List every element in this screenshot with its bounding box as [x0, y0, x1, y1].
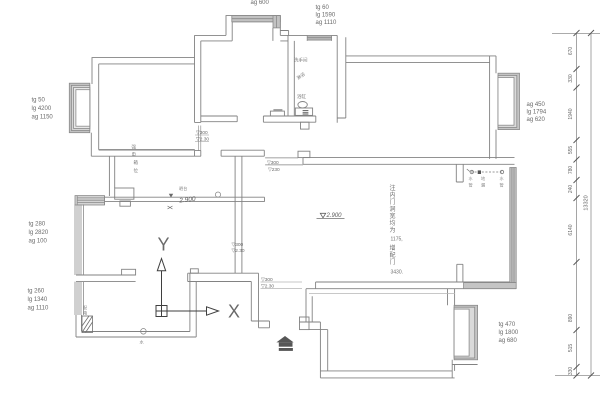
svg-text:lg 1800: lg 1800 [499, 330, 519, 336]
wall bay left [226, 16, 280, 36]
svg-text:890: 890 [568, 314, 574, 323]
level mark 2.900 center [317, 213, 345, 219]
level mark cluster left hall [168, 185, 197, 209]
wall living top [346, 56, 496, 63]
window bottom-left glazing upper [75, 204, 84, 275]
jamb box bottom-right room [300, 317, 310, 330]
small circle mark near mid wall [215, 192, 220, 197]
svg-text:1175,: 1175, [391, 237, 403, 243]
svg-text:3430.: 3430. [391, 270, 404, 276]
window bottom-right room [454, 305, 478, 360]
axis X line [167, 310, 207, 312]
bump on stub wall [122, 269, 136, 275]
wall central vertical pair x194.5-200.8 [195, 35, 201, 122]
extension line bottom [555, 375, 600, 377]
tiny text pipes [469, 175, 505, 189]
north arrow [276, 336, 293, 351]
svg-text:ag 100: ag 100 [29, 239, 48, 245]
wall step to bottom-right room [306, 289, 316, 322]
svg-text:ag 1150: ag 1150 [32, 115, 54, 121]
svg-text:漏: 漏 [481, 182, 485, 189]
pipes filled square [478, 170, 481, 174]
wall bath left pair [288, 35, 294, 116]
svg-text:Y: Y [157, 235, 169, 255]
svg-text:管: 管 [469, 182, 473, 189]
svg-text:▽230: ▽230 [268, 167, 280, 173]
wall corridor pair [109, 156, 114, 196]
svg-text:管: 管 [500, 182, 504, 189]
wall central room bottom [201, 116, 237, 122]
wall C-room top [188, 273, 259, 281]
svg-text:浴缸: 浴缸 [297, 93, 306, 100]
wall top outer left of bay [195, 35, 233, 41]
wall bath bottom [263, 116, 315, 122]
wall bottom-left room bottom [76, 332, 196, 338]
axis Y line [161, 271, 163, 306]
electric panel bottom-left [82, 316, 93, 333]
level notes [196, 130, 280, 290]
basin pedestal [270, 111, 284, 116]
wall below TL window [90, 133, 92, 157]
wall bay inner verticals [232, 22, 273, 41]
wall central vertical lower jamb [195, 151, 201, 157]
svg-text:lg 1340: lg 1340 [28, 297, 48, 303]
svg-text:▽300: ▽300 [232, 242, 244, 248]
svg-text:配: 配 [390, 252, 396, 259]
wall bottom-right room top [300, 322, 328, 330]
wall bottom-left outer left lower [76, 315, 82, 337]
wall bath right pair [337, 35, 346, 122]
door jamb thin lines central wall [199, 126, 201, 151]
svg-text:门: 门 [390, 258, 396, 266]
door threshold lines mid opening [265, 158, 303, 165]
axis Y arrowhead [157, 259, 165, 271]
svg-text:均: 均 [390, 219, 396, 227]
washer box [295, 108, 312, 115]
svg-text:lg 1590: lg 1590 [316, 13, 336, 19]
pier closet box [115, 188, 134, 199]
svg-text:lg 1794: lg 1794 [527, 110, 547, 116]
svg-text:▽300: ▽300 [267, 160, 279, 166]
text blocks [28, 0, 547, 344]
svg-text:X: X [228, 302, 240, 322]
dim line outer [590, 33, 592, 376]
dimension lines right [552, 33, 600, 376]
jamb bump C-room top left [190, 269, 198, 273]
wall big room bottom [316, 282, 517, 289]
svg-text:ag 450: ag 450 [527, 102, 546, 108]
wall top-left room inner [99, 64, 195, 150]
dim ticks outer [588, 30, 594, 36]
wall below BR window [452, 360, 477, 378]
extension line top [552, 33, 600, 35]
wall top-left room outer [92, 58, 195, 84]
svg-text:位: 位 [134, 167, 139, 173]
wall C-room left pair [190, 273, 196, 331]
basin hatch [273, 109, 282, 111]
window bedroom right bay [498, 73, 520, 129]
svg-text:电: 电 [132, 151, 137, 157]
axis X arrowhead [207, 307, 219, 315]
wall TL room bottom outer [91, 150, 201, 156]
windows group [69, 16, 519, 360]
jamb notch above long wall [298, 151, 310, 157]
svg-text:240: 240 [568, 185, 574, 194]
svg-text:ag 1110: ag 1110 [316, 20, 337, 26]
svg-text:箱: 箱 [134, 159, 139, 166]
wall long mid-right [303, 158, 515, 165]
svg-text:晒台: 晒台 [179, 185, 187, 192]
wall C-room right jog [251, 321, 269, 328]
wall bottom-right room right pair [448, 289, 455, 306]
dim line inner [576, 33, 578, 376]
toilet oval [298, 102, 307, 108]
svg-text:330: 330 [568, 367, 574, 376]
faint terrace line [309, 292, 455, 294]
axis UCS icon [156, 259, 219, 317]
svg-text:ag 1110: ag 1110 [28, 306, 49, 312]
svg-text:洗手间: 洗手间 [294, 57, 308, 64]
svg-text:内: 内 [390, 191, 396, 199]
wall mid left segment [221, 150, 264, 156]
svg-text:ag 620: ag 620 [527, 117, 546, 123]
dim ticks inner [574, 30, 595, 379]
washer hatch marks [303, 111, 309, 114]
underlines level notes [195, 135, 209, 142]
svg-text:ag 600: ag 600 [251, 0, 270, 6]
window bottom-left top frame corner [75, 196, 105, 205]
pipes dashed line [467, 169, 504, 174]
svg-text:lg 2820: lg 2820 [29, 230, 49, 236]
vertical note [390, 184, 404, 276]
tiny text panel [83, 305, 145, 345]
tiny text column near door TL [132, 145, 139, 174]
wall stub below long wall [456, 164, 463, 182]
svg-text:洞: 洞 [390, 205, 396, 213]
wall C-room right pair [251, 273, 258, 328]
wall jamb right lower [457, 264, 463, 282]
window long right side [464, 168, 517, 289]
svg-text:tg 50: tg 50 [32, 98, 46, 104]
window TL left: nested frame [69, 83, 90, 133]
svg-text:ag 680: ag 680 [499, 338, 518, 344]
window bottom-left glazing lower [75, 282, 84, 315]
svg-text:515: 515 [568, 344, 574, 353]
small circle mark on bottom wall [141, 329, 147, 335]
wall bottom-left room top / hall line [105, 197, 265, 201]
wall bottom-right room left [320, 322, 327, 378]
svg-text:▽2.30: ▽2.30 [232, 248, 245, 254]
svg-text:增: 增 [390, 244, 396, 252]
svg-text:门: 门 [390, 198, 396, 206]
svg-text:555: 555 [568, 146, 574, 155]
svg-text:lg 4200: lg 4200 [32, 106, 52, 112]
svg-text:tg 470: tg 470 [499, 322, 516, 328]
svg-text:tg 60: tg 60 [316, 5, 330, 11]
svg-text:1940: 1940 [568, 108, 574, 119]
door notch below wall [120, 201, 130, 206]
window band top of bath [307, 35, 331, 41]
window bay top band [232, 16, 280, 28]
svg-text:宽: 宽 [390, 212, 396, 220]
svg-text:tg 280: tg 280 [29, 222, 46, 228]
svg-text:6140: 6140 [568, 224, 574, 235]
svg-text:为: 为 [390, 226, 396, 234]
door jamb below bath [301, 122, 310, 129]
dim numbers inner [568, 47, 574, 376]
svg-text:780: 780 [568, 166, 574, 175]
wall stub bottom-left [76, 275, 136, 282]
svg-text:tg 260: tg 260 [28, 289, 45, 295]
wall bottom-right room bottom [320, 371, 454, 378]
svg-text:330: 330 [568, 74, 574, 83]
svg-text:670: 670 [568, 47, 574, 56]
wall bedroom right inner [489, 56, 491, 159]
svg-text:13320: 13320 [584, 195, 590, 210]
svg-text:注: 注 [390, 184, 396, 192]
wall top right of bay [280, 31, 337, 41]
wall hall pair down to C-room [235, 156, 242, 273]
wall bedroom right outer segments [495, 56, 497, 159]
